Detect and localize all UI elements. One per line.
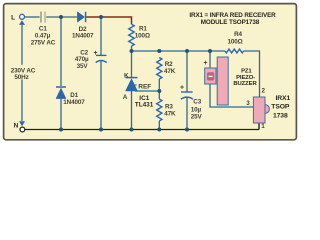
wire D1 branch down from top rail bbox=[60, 17, 62, 86]
resistor R4 100 ohm bbox=[225, 49, 244, 53]
ground rail (neutral, black) bbox=[25, 129, 259, 131]
svg-text:D1: D1 bbox=[70, 92, 78, 99]
svg-text:MODULE TSOP1738: MODULE TSOP1738 bbox=[201, 19, 260, 26]
wire R1 bottom + node line y=51 bbox=[132, 46, 226, 51]
junction node at 61,129.5 bbox=[59, 128, 63, 132]
junction node at 187,51 bbox=[185, 49, 189, 53]
svg-text:A: A bbox=[123, 94, 128, 101]
svg-text:R1: R1 bbox=[139, 26, 147, 33]
svg-text:35V: 35V bbox=[77, 63, 89, 70]
svg-text:1N4007: 1N4007 bbox=[63, 99, 85, 106]
junction node at 131.5,51 bbox=[130, 49, 134, 53]
wire PZ1 plus lead bbox=[209, 51, 211, 68]
svg-text:275V AC: 275V AC bbox=[31, 39, 56, 46]
wire C3 bottom to ground rail bbox=[186, 98, 188, 130]
wire D1 anode to ground rail bbox=[60, 99, 62, 130]
svg-text:PIEZO-: PIEZO- bbox=[236, 75, 255, 81]
wire left rail: L arrow down to N arrow bbox=[21, 25, 23, 121]
svg-text:+: + bbox=[180, 85, 184, 92]
wire PZ1 minus lead to IRX1 pin 3 bbox=[210, 84, 253, 107]
resistor R2 47K bbox=[157, 58, 162, 80]
PZ1 body bbox=[217, 57, 228, 105]
svg-text:C3: C3 bbox=[193, 98, 201, 105]
arrow at L terminal bbox=[19, 20, 25, 25]
svg-text:C1: C1 bbox=[39, 25, 47, 32]
wire node down to TL431 cathode bbox=[131, 51, 133, 78]
junction node at 187,129.5 bbox=[185, 128, 189, 132]
svg-text:R4: R4 bbox=[234, 31, 242, 38]
svg-text:+: + bbox=[94, 50, 98, 57]
svg-text:1738: 1738 bbox=[273, 112, 288, 119]
svg-text:REF: REF bbox=[138, 83, 151, 90]
wire IRX1 pin 1 to ground rail bbox=[258, 123, 260, 130]
svg-text:1: 1 bbox=[261, 123, 265, 130]
junction node at 210,51 bbox=[208, 49, 212, 53]
wire C1 to D2 anode bbox=[46, 16, 77, 18]
diode D2 1N4007 bbox=[77, 12, 84, 22]
wire TL431 anode to ground rail bbox=[131, 91, 133, 130]
svg-text:1N4007: 1N4007 bbox=[72, 33, 94, 40]
capacitor C1 0.47u 275V AC bbox=[40, 12, 42, 23]
svg-text:25V: 25V bbox=[191, 113, 203, 120]
svg-text:PZ1: PZ1 bbox=[241, 69, 252, 75]
wire R2 bottom to REF node bbox=[158, 79, 160, 99]
svg-text:IRX1: IRX1 bbox=[275, 95, 290, 102]
wire C3 branch down from node line bbox=[186, 51, 188, 92]
wire C2 bottom to ground rail bbox=[100, 61, 102, 130]
shunt regulator IC1 TL431 bbox=[126, 77, 138, 79]
svg-text:47K: 47K bbox=[164, 111, 176, 118]
capacitor C3 10u 25V (electrolytic) bbox=[181, 91, 193, 93]
svg-text:L: L bbox=[11, 15, 15, 22]
svg-text:+: + bbox=[203, 60, 207, 67]
terminal L bbox=[20, 14, 25, 19]
junction node at 159.3,91 bbox=[157, 89, 161, 93]
diode D1 1N4007 bbox=[56, 86, 66, 88]
source label 230V AC 50Hz bbox=[9, 65, 38, 80]
svg-text:47K: 47K bbox=[164, 68, 176, 75]
resistor R3 47K bbox=[157, 99, 162, 121]
svg-text:100Ω: 100Ω bbox=[227, 39, 242, 46]
resistor R1 100 ohm bbox=[129, 24, 134, 46]
svg-text:R2: R2 bbox=[165, 61, 173, 68]
IR receiver module IRX1 TSOP1738 bbox=[265, 105, 269, 114]
svg-text:BUZZER: BUZZER bbox=[233, 81, 257, 87]
wire C2 branch down from red rail bbox=[100, 17, 102, 55]
svg-text:TSOP: TSOP bbox=[271, 104, 290, 111]
svg-text:K: K bbox=[124, 72, 129, 79]
REF tick bbox=[133, 84, 137, 86]
border frame bbox=[4, 4, 297, 140]
junction node at 101,17 bbox=[99, 15, 103, 19]
junction node at 159.3,129.5 bbox=[157, 128, 161, 132]
svg-text:R3: R3 bbox=[165, 104, 173, 111]
terminal N bbox=[20, 127, 25, 132]
svg-text:100Ω: 100Ω bbox=[135, 33, 150, 40]
wire D2 cathode to R1 top (positive rail, red) bbox=[86, 17, 131, 24]
wire R4 right end to IRX1 pin 2 bbox=[244, 51, 260, 97]
wire R3 bottom to ground rail bbox=[158, 121, 160, 130]
junction node at 131.5,129.5 bbox=[130, 128, 134, 132]
junction node at 61,17 bbox=[59, 15, 63, 19]
arrow at N terminal bbox=[19, 121, 25, 126]
svg-text:50Hz: 50Hz bbox=[14, 74, 28, 81]
junction node at 159.3,51 bbox=[157, 49, 161, 53]
capacitor C2 470u 35V (electrolytic) bbox=[96, 54, 107, 56]
svg-text:N: N bbox=[14, 123, 19, 130]
junction node at 101,129.5 bbox=[99, 128, 103, 132]
svg-text:TL431: TL431 bbox=[135, 102, 154, 109]
PZ1 element plate bbox=[205, 68, 216, 84]
wire top rail: L terminal to C1 bbox=[25, 16, 40, 18]
wire REF lead of TL431 to R2/R3 node bbox=[135, 90, 159, 92]
